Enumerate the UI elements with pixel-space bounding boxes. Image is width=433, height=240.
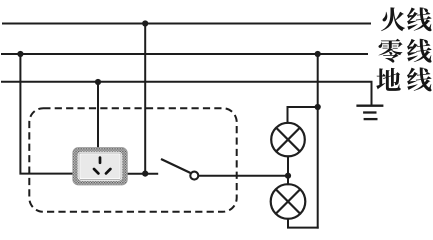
ground symbol: [356, 106, 383, 119]
switch S1: [161, 159, 198, 180]
wire right neutral vertical: [317, 54, 319, 228]
node: lamp middle junction: [285, 173, 291, 179]
node: neutral drop junction: [17, 51, 23, 57]
label dixian (earth wire): [376, 67, 431, 91]
wire live bus (huoxian): [3, 23, 370, 25]
socket slots: [94, 158, 110, 174]
wire lamp1 branch to neutral vertical: [288, 107, 318, 123]
node: earth drop junction: [95, 79, 101, 85]
wire socket to switch: [127, 173, 157, 175]
wire neutral drop to socket: [20, 54, 72, 174]
wire neutral bus (lingxian): [2, 53, 367, 55]
wire earth bus (dixian): [2, 82, 372, 105]
node: lamp1 branch junction: [315, 104, 321, 110]
dashed enclosure box: [29, 108, 236, 212]
wire live drop to switch wire: [144, 24, 146, 174]
wire lamp2 bottom return: [288, 219, 318, 228]
wire switch output to lamp junction: [199, 175, 288, 177]
lamp L1: [271, 123, 305, 157]
wire between lamps: [287, 156, 289, 184]
label huoxian (live wire): [381, 7, 432, 31]
node: right vertical at neutral bus: [315, 51, 321, 57]
node: live drop at switch wire: [142, 171, 148, 177]
node: live drop junction: [142, 20, 148, 26]
lamp L2: [271, 184, 306, 219]
socket X1: [73, 148, 128, 186]
label lingxian (neutral wire): [378, 39, 431, 63]
wire earth drop to socket top: [97, 82, 99, 148]
